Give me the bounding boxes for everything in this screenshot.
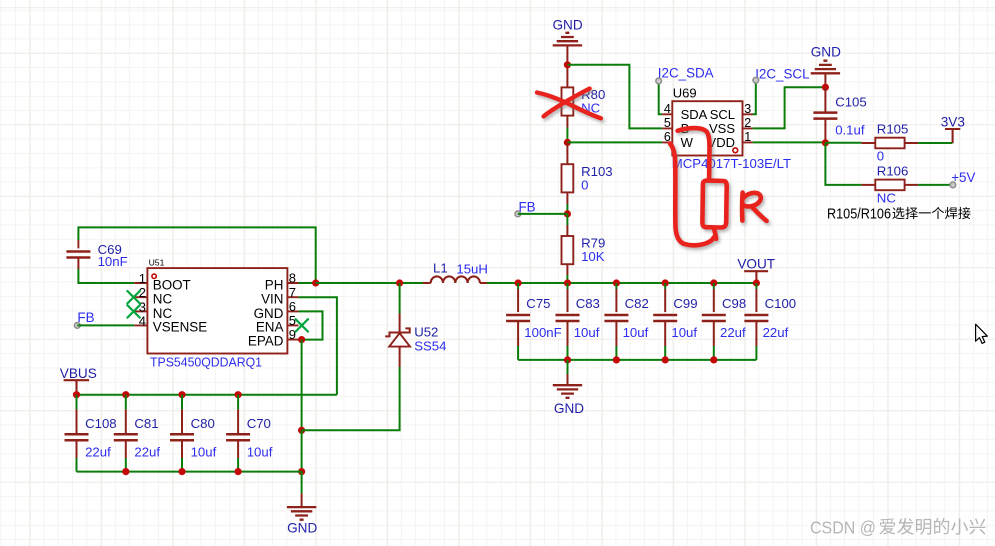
junction node W / R103-top	[564, 139, 571, 146]
hand-drawn loop and resistor sketch at U69	[670, 128, 767, 245]
junction C83 bottom	[564, 356, 571, 363]
svg-text:C108: C108	[85, 416, 117, 431]
svg-text:SDA: SDA	[681, 107, 708, 122]
junction C80 top	[178, 391, 185, 398]
wire diode return to EPAD net	[302, 367, 400, 430]
wire C82 bottom stub	[615, 321, 617, 346]
svg-text:2: 2	[744, 116, 751, 130]
svg-text:2: 2	[139, 285, 146, 300]
IC U51 left pin stubs	[134, 283, 147, 325]
junction PH/bootstrap	[312, 279, 319, 286]
wire C98 top stub	[713, 289, 715, 312]
wire C70 bottom link	[237, 458, 239, 472]
junction C99 top	[662, 279, 669, 286]
svg-text:C105: C105	[835, 95, 867, 110]
wire node to R105	[825, 142, 861, 144]
svg-text:U51: U51	[149, 257, 165, 267]
svg-text:ENA: ENA	[256, 319, 284, 334]
junction C82 top	[613, 279, 620, 286]
wire C108 top stub	[76, 409, 78, 434]
svg-text:C70: C70	[247, 416, 271, 431]
wire C75 bottom link	[517, 346, 519, 360]
svg-text:U52: U52	[414, 325, 438, 340]
svg-text:VOUT: VOUT	[737, 256, 775, 271]
wire VBUS bus	[77, 394, 337, 396]
wire L1 right stub	[480, 282, 487, 284]
svg-text:C75: C75	[526, 296, 550, 311]
wire C99 bottom stub	[664, 321, 666, 346]
no-connect X pin 2	[127, 291, 139, 303]
svg-text:GND: GND	[552, 18, 582, 33]
svg-text:10uf: 10uf	[247, 445, 273, 460]
svg-text:GND: GND	[287, 520, 317, 535]
wire FB node to R79	[566, 214, 568, 225]
junction EPAD	[298, 336, 305, 343]
svg-text:C100: C100	[765, 296, 797, 311]
svg-text:10uf: 10uf	[671, 325, 697, 340]
svg-text:8: 8	[289, 271, 296, 286]
capacitor C75 plates	[506, 315, 530, 321]
wire R106 to +5V	[918, 184, 953, 186]
power port VOUT bar	[744, 271, 768, 283]
op wire I2C_SDA to pin SDA	[659, 81, 663, 114]
wire C69 bottom stub	[77, 258, 79, 269]
wire I2C_SCL to pin SCL	[753, 80, 756, 114]
junction node VDD/C105/R105/R106	[822, 139, 829, 146]
svg-text:GND: GND	[811, 44, 841, 59]
wire PH to bus	[299, 282, 316, 284]
wire VIN down to VBUS bus	[299, 297, 337, 395]
wire node to U69 pin B	[567, 65, 662, 129]
wire node to U69 pin W	[567, 141, 662, 143]
wire down to cap bus	[301, 430, 303, 471]
wire R106 left stub	[861, 184, 875, 186]
svg-text:VSS: VSS	[709, 121, 735, 136]
wire C82 top stub	[615, 289, 617, 312]
svg-text:4: 4	[139, 313, 146, 328]
wire C80 bottom link	[181, 458, 183, 472]
junction C108 top	[73, 391, 80, 398]
wire C98 bottom link	[713, 346, 715, 360]
mouse cursor	[976, 324, 988, 343]
wire FB to VSENSE	[77, 324, 134, 326]
wire C99 top link	[664, 283, 666, 289]
junction node R80-top / B-link	[564, 61, 571, 68]
svg-text:22uf: 22uf	[720, 325, 746, 340]
junction C80 bottom	[178, 468, 185, 475]
wire input cap ground bus	[77, 471, 302, 473]
wire GND pin loop to EPAD	[299, 311, 323, 339]
wire ground stub mid	[567, 374, 569, 385]
svg-text:C81: C81	[134, 416, 158, 431]
junction bottom bus / GND	[298, 468, 305, 475]
svg-text:VBUS: VBUS	[60, 366, 97, 381]
svg-text:22uf: 22uf	[134, 445, 160, 460]
svg-text:NC: NC	[153, 292, 173, 307]
svg-text:GND: GND	[554, 401, 584, 416]
capacitor C105 plates	[813, 113, 837, 119]
wire C108 bottom stub	[76, 440, 78, 458]
svg-text:C99: C99	[673, 296, 697, 311]
svg-text:SS54: SS54	[414, 339, 446, 354]
wire C105 bottom stub	[824, 119, 826, 141]
wire R105 to 3V3	[918, 142, 953, 144]
annotation text CJK (choose one to solder)	[892, 207, 970, 219]
svg-text:0.1uf: 0.1uf	[835, 123, 865, 138]
svg-text:15uH: 15uH	[456, 262, 488, 277]
wire node to R103	[566, 142, 568, 164]
U69 pin names	[681, 107, 736, 150]
svg-text:22uf: 22uf	[763, 325, 789, 340]
IC U51 pin-1 circle	[152, 274, 156, 278]
svg-text:100nF: 100nF	[524, 325, 561, 340]
svg-text:EPAD: EPAD	[248, 334, 284, 349]
junction diode return	[298, 427, 305, 434]
ground symbol (EPAD)	[287, 507, 316, 520]
ground symbol (output caps)	[553, 385, 582, 398]
ground symbol (top, flipped)	[553, 33, 582, 46]
svg-text:10uf: 10uf	[574, 325, 600, 340]
svg-text:W: W	[681, 135, 694, 150]
svg-text:5: 5	[664, 116, 671, 130]
wire C83 top stub	[567, 289, 569, 312]
capacitor C83 plates	[556, 315, 580, 321]
wire C75 bottom stub	[517, 321, 519, 346]
svg-text:R105/R106: R105/R106	[827, 206, 891, 222]
svg-text:R105: R105	[877, 122, 909, 137]
wire R103 to FB node	[566, 204, 568, 214]
svg-text:R106: R106	[877, 163, 909, 178]
svg-text:10K: 10K	[581, 249, 605, 264]
wire C70 top stub	[237, 409, 239, 434]
wire C100 top stub	[755, 289, 757, 312]
svg-text:C83: C83	[576, 296, 600, 311]
wire C81 top link	[125, 395, 127, 410]
wire C108 top link	[76, 395, 78, 410]
wire C80 top link	[181, 395, 183, 410]
wire ground stub	[301, 493, 303, 507]
wire R79 to output bus	[566, 275, 568, 283]
wire GND to C105 node	[824, 73, 826, 87]
junction node VSS/GND/C105	[822, 84, 829, 91]
IC U69 body	[672, 101, 742, 155]
svg-text:CSDN @: CSDN @	[810, 518, 876, 538]
wire C83 bottom link	[567, 346, 569, 360]
junction C100 top	[753, 279, 760, 286]
wire C100 top link	[755, 283, 757, 289]
power port 3V3 bar	[945, 129, 960, 143]
wire C99 bottom link	[664, 346, 666, 360]
no-connect X pin 3	[127, 305, 139, 317]
svg-text:TPS5450QDDARQ1: TPS5450QDDARQ1	[150, 354, 262, 369]
svg-text:10nF: 10nF	[98, 254, 128, 269]
wire C81 bottom link	[125, 458, 127, 472]
junction C82 bottom	[613, 356, 620, 363]
wire C69 top to PH loop	[78, 227, 315, 283]
IC U51 right pin stubs	[287, 283, 298, 340]
IC U51 body	[147, 268, 287, 353]
power port VBUS bar	[64, 380, 90, 395]
U51 pin numbers	[139, 271, 296, 343]
junction node FB	[564, 210, 571, 217]
wire node down to R106	[825, 143, 861, 185]
svg-text:FB: FB	[519, 200, 536, 215]
svg-text:+5V: +5V	[951, 170, 975, 185]
junction C81 top	[122, 391, 129, 398]
wire L1 to VOUT	[487, 282, 756, 284]
wire VDD to node	[753, 141, 826, 143]
IC U69 pin-1 circle	[733, 148, 738, 153]
wire diode anode stub	[399, 347, 401, 367]
wire PH bus to L1	[316, 282, 423, 284]
U69 pin numbers	[664, 102, 751, 144]
svg-text:FB: FB	[77, 310, 94, 325]
net flag dot FB right	[515, 211, 521, 217]
wire C83 bottom stub	[567, 321, 569, 346]
wire to ground symbol	[301, 472, 303, 494]
svg-text:0: 0	[877, 149, 884, 164]
svg-text:C82: C82	[625, 296, 649, 311]
junction C83 top	[564, 279, 571, 286]
capacitor C69 plates	[66, 252, 90, 258]
diode U52 schottky cathode bar	[385, 328, 410, 336]
no-connect X pin ENA	[296, 319, 308, 331]
wire C80 top stub	[181, 409, 183, 434]
junction C70 top	[235, 391, 242, 398]
wire C81 top stub	[125, 409, 127, 434]
IC U69 pin stubs	[662, 114, 753, 142]
wire C105 top stub	[824, 87, 826, 112]
wire R105 left stub	[861, 142, 875, 144]
wire C98 bottom stub	[713, 321, 715, 346]
svg-text:7: 7	[289, 285, 296, 300]
wire C81 bottom stub	[125, 440, 127, 458]
diode U52 triangle	[389, 333, 410, 346]
svg-text:5: 5	[289, 313, 296, 328]
svg-text:L1: L1	[433, 261, 448, 276]
wire R79 top stub	[566, 225, 568, 236]
wire R105 right stub	[905, 142, 919, 144]
junction C75 top	[515, 279, 522, 286]
watermark CJK	[879, 518, 985, 535]
wire L1 left stub	[423, 282, 431, 284]
svg-text:1: 1	[139, 271, 146, 286]
junction C99 bottom	[662, 356, 669, 363]
wire bus to ground	[567, 360, 569, 374]
junction C70 bottom	[235, 468, 242, 475]
wire VSS to GND node	[753, 87, 826, 128]
wire C80 bottom stub	[181, 440, 183, 458]
wire C70 top link	[237, 395, 239, 410]
svg-text:NC: NC	[877, 190, 897, 205]
svg-text:10uf: 10uf	[623, 325, 649, 340]
svg-text:U69: U69	[673, 86, 697, 101]
capacitor C80 plates	[170, 434, 194, 440]
resistor R103 body	[562, 164, 574, 192]
svg-text:C98: C98	[722, 296, 746, 311]
ground symbol (right of SCL)	[811, 61, 840, 74]
capacitor C81 plates	[114, 434, 138, 440]
svg-text:10uf: 10uf	[191, 445, 217, 460]
wire EPAD down	[301, 340, 303, 431]
U51 pin names	[153, 277, 284, 348]
svg-text:9: 9	[289, 327, 296, 342]
svg-text:C80: C80	[191, 416, 215, 431]
svg-text:VIN: VIN	[261, 292, 283, 307]
junction diode top	[396, 279, 403, 286]
capacitor C98 plates	[702, 315, 726, 321]
resistor R106 body	[875, 180, 904, 191]
wire C108 bottom link	[76, 458, 78, 472]
svg-text:4: 4	[664, 102, 671, 116]
svg-text:VSENSE: VSENSE	[153, 319, 207, 334]
wire C75 top link	[517, 283, 519, 289]
junction C81 bottom	[122, 468, 129, 475]
svg-text:SCL: SCL	[710, 107, 735, 122]
hand-drawn X over R80	[537, 89, 601, 119]
wire R103 bottom stub	[566, 192, 568, 204]
wire C99 top stub	[664, 289, 666, 312]
resistor R80 body	[562, 87, 574, 115]
inductor L1	[431, 276, 480, 283]
wire FB to node	[518, 213, 568, 215]
capacitor C82 plates	[604, 315, 628, 321]
resistor R79 body	[562, 236, 574, 264]
wire output cap ground bus	[518, 359, 756, 361]
wire GND to R80	[566, 45, 568, 87]
net flag dot I2C_SCL	[753, 77, 759, 83]
junction C98 top	[710, 279, 717, 286]
svg-text:MCP4017T-103E/LT: MCP4017T-103E/LT	[672, 156, 791, 171]
wire C82 bottom link	[615, 346, 617, 360]
wire R106 right stub	[905, 184, 919, 186]
capacitor C99 plates	[653, 315, 677, 321]
capacitor C100 plates	[744, 315, 768, 321]
resistor R105 body	[875, 138, 904, 149]
svg-text:I2C_SDA: I2C_SDA	[658, 66, 714, 81]
wire R79 bottom stub	[566, 264, 568, 275]
svg-text:I2C_SCL: I2C_SCL	[755, 66, 809, 81]
wire C69 to BOOT	[78, 269, 134, 283]
wire C83 top link	[567, 283, 569, 289]
wire C100 bottom link	[755, 346, 757, 360]
junction C98 bottom	[710, 356, 717, 363]
svg-text:6: 6	[289, 299, 296, 314]
wire C100 bottom stub	[755, 321, 757, 346]
wire R80 to node W	[566, 128, 568, 143]
capacitor C70 plates	[226, 434, 250, 440]
wire diode cathode stub	[399, 314, 401, 333]
svg-text:BOOT: BOOT	[153, 277, 191, 292]
svg-text:22uf: 22uf	[85, 445, 111, 460]
wire R80 bottom stub	[566, 116, 568, 128]
capacitor C69 top stub	[77, 240, 79, 248]
svg-text:1: 1	[744, 130, 751, 144]
wire C75 top stub	[517, 289, 519, 312]
wire C98 top link	[713, 283, 715, 289]
svg-text:0: 0	[581, 177, 588, 192]
svg-text:3: 3	[139, 299, 146, 314]
wire bus to diode	[399, 283, 401, 314]
net flag dot FB left	[74, 323, 80, 329]
wire C70 bottom stub	[237, 440, 239, 458]
wire C105 to VDD rail	[824, 141, 826, 143]
svg-text:3V3: 3V3	[941, 115, 965, 130]
wire C82 top link	[615, 283, 617, 289]
svg-text:3: 3	[744, 102, 751, 116]
net flag dot I2C_SDA	[656, 78, 662, 84]
net flag dot +5V	[950, 182, 956, 188]
capacitor C108 plates	[65, 434, 89, 440]
svg-text:PH: PH	[265, 277, 284, 292]
